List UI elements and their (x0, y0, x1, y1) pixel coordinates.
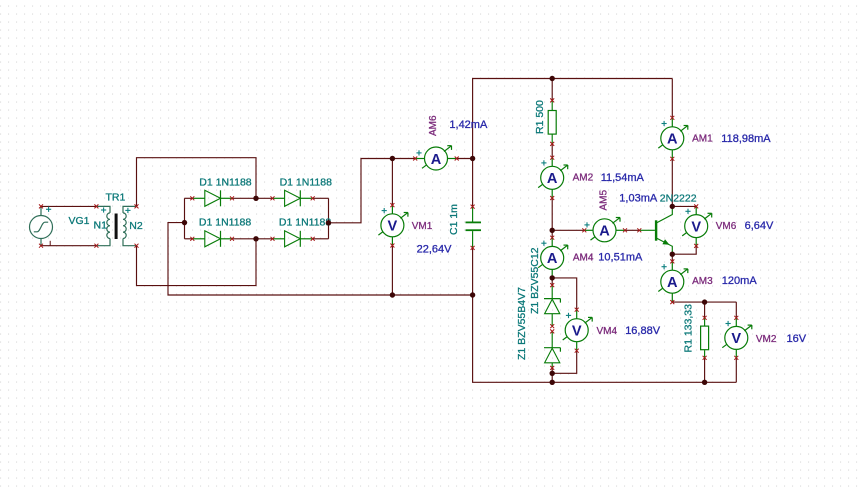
svg-text:D1 1N1188: D1 1N1188 (199, 176, 252, 188)
pin AM3 bottom (670, 300, 674, 304)
wire TR1 secondary bottom to bridge bottom mid (137, 239, 257, 286)
pin R1 500 top (550, 98, 554, 102)
AM6 plus mark (416, 150, 421, 155)
wire bridge top row left (185, 197, 193, 199)
pin TR1 primary bottom (94, 244, 98, 248)
svg-text:A: A (547, 251, 558, 267)
junction node emitter (670, 252, 675, 257)
wire R1 133 bottom to rail (704, 358, 706, 383)
junction node zener top (550, 275, 555, 280)
junction node top rail R1 (550, 76, 555, 81)
junction node zener bottom (550, 371, 555, 376)
pin TR1 secondary top (135, 204, 139, 208)
svg-text:VG1: VG1 (69, 215, 90, 227)
diode D1 bottom-right 1N1188 (272, 231, 312, 247)
svg-text:AM4: AM4 (573, 252, 594, 263)
pin VM6 bottom (694, 244, 698, 248)
TR1 primary plus mark (101, 207, 106, 212)
wire VM1 branch top (391, 159, 393, 206)
wire bridge right rail (328, 198, 330, 239)
VM2 plus mark (726, 321, 731, 326)
wire AM4 bottom node (551, 278, 553, 285)
svg-text:VM6: VM6 (716, 221, 737, 232)
svg-text:A: A (599, 224, 610, 240)
pin D1 top-right anode (271, 196, 275, 200)
AM4 plus mark (541, 241, 546, 246)
diode D1 bottom-left 1N1188 (192, 231, 232, 247)
junction node collector (670, 204, 675, 209)
pin Z1 C12 anode (550, 324, 554, 328)
svg-text:1,03mA: 1,03mA (619, 193, 658, 205)
wire VG1 top to TR1 primary (41, 205, 96, 207)
junction node load rail (702, 380, 707, 385)
wire AM2 to base node (551, 198, 553, 238)
pin C1 bottom (471, 246, 475, 250)
pin C1 top (471, 205, 475, 209)
wire AM1 to collector node (671, 159, 673, 207)
wire capacitor top (472, 159, 474, 207)
wire bridge left rail (184, 198, 186, 239)
wire VM2 top (735, 302, 737, 318)
transformer TR1 (96, 206, 136, 245)
VM1 plus mark (382, 208, 387, 213)
svg-text:Z1 BZV55C12: Z1 BZV55C12 (529, 247, 541, 314)
junction node base (550, 228, 555, 233)
svg-text:TR1: TR1 (106, 192, 126, 204)
svg-text:118,98mA: 118,98mA (721, 133, 771, 145)
resistor R1 133,33 (701, 318, 709, 358)
svg-text:A: A (431, 152, 442, 168)
ammeter AM2 (538, 157, 568, 198)
VM6 plus mark (685, 209, 690, 214)
svg-text:A: A (547, 171, 558, 187)
svg-text:N1: N1 (94, 219, 108, 231)
wire bridge bottom row right (313, 238, 329, 240)
svg-text:R1 133,33: R1 133,33 (683, 304, 695, 353)
wire emitter node to VM6 bottom (672, 246, 696, 254)
VG1 plus mark (46, 207, 51, 212)
junction node cap bottom rail (470, 292, 475, 297)
ammeter AM5 (584, 218, 625, 242)
pin D1 top-left cathode (230, 196, 234, 200)
svg-text:16V: 16V (787, 333, 807, 345)
wire bridge plus tap up to meters rail (329, 159, 416, 223)
VM4 plus mark (566, 313, 571, 318)
pin VM6 top (694, 204, 698, 208)
svg-text:A: A (667, 275, 678, 291)
pin AM1 bottom (670, 157, 674, 161)
svg-text:120mA: 120mA (722, 275, 758, 287)
wire VM4 branch top (552, 278, 577, 310)
svg-text:10,51mA: 10,51mA (598, 251, 643, 263)
wire AM3 bottom to load node line (672, 301, 736, 303)
wire bridge bottom row left (185, 238, 193, 240)
svg-text:VM2: VM2 (756, 334, 777, 345)
svg-text:V: V (731, 331, 741, 347)
svg-text:Z1 BZV55B4V7: Z1 BZV55B4V7 (516, 287, 528, 360)
svg-text:D1 1N1188: D1 1N1188 (280, 176, 333, 188)
pin D1 bottom-left anode (190, 237, 194, 241)
wire AM6 right to cap node (457, 158, 473, 160)
capacitor C1 1m (466, 207, 482, 248)
zener Z1 BZV55B4V7 (544, 331, 560, 368)
diode D1 top-right 1N1188 (272, 190, 312, 206)
wire zener chain bottom to rail (551, 368, 553, 382)
svg-text:AM5: AM5 (598, 190, 609, 211)
pin Z1 B4V7 anode (550, 366, 554, 370)
svg-text:N2: N2 (129, 220, 143, 232)
pin VM4 top (575, 308, 579, 312)
svg-text:R1 500: R1 500 (534, 100, 546, 134)
pin D1 bottom-left cathode (230, 237, 234, 241)
pin AM4 top (550, 236, 554, 240)
wire capacitor bottom (472, 248, 474, 295)
svg-text:AM2: AM2 (573, 173, 594, 184)
svg-text:VM4: VM4 (597, 326, 618, 337)
svg-text:22,64V: 22,64V (417, 244, 453, 256)
wire R1 500 to AM2 (551, 144, 553, 158)
wire AM1 top (671, 79, 673, 118)
svg-text:AM3: AM3 (692, 276, 713, 287)
pin AM5 right (623, 228, 627, 232)
pin TR1 primary top (94, 204, 98, 208)
junction node bridge left tap (182, 220, 187, 225)
voltmeter VM2 (722, 318, 752, 359)
svg-text:11,54mA: 11,54mA (601, 172, 645, 184)
pin AM1 top (670, 116, 674, 120)
ammeter AM4 (538, 238, 568, 279)
junction node VM1 bottom rail (390, 292, 395, 297)
svg-text:A: A (667, 132, 678, 148)
wire bridge top row middle (232, 197, 273, 199)
wire lower ground rail (473, 295, 737, 382)
pin VM1 top (390, 203, 394, 207)
wire load node to R1 133 top (704, 302, 706, 318)
pin AM3 top (670, 259, 674, 263)
svg-text:D1 1N1188: D1 1N1188 (279, 216, 332, 228)
ammeter AM1 (658, 118, 688, 159)
pin AM5 left (582, 228, 586, 232)
wire VM1 branch bottom (391, 246, 393, 296)
zener Z1 BZV55C12 (544, 285, 560, 326)
svg-text:AM1: AM1 (692, 134, 713, 145)
junction node VM1 top (390, 156, 395, 161)
svg-text:D1 1N1188: D1 1N1188 (199, 216, 252, 228)
wire collector node to VM6 top (672, 205, 696, 207)
pin VG1 plus (39, 204, 43, 208)
pin VM4 bottom (575, 349, 579, 353)
svg-text:16,88V: 16,88V (625, 325, 661, 337)
pin VM2 bottom (734, 356, 738, 360)
pin Z1 C12 cathode (550, 283, 554, 287)
wire base node to AM5 (552, 229, 584, 231)
svg-text:6,64V: 6,64V (745, 220, 774, 232)
junction node bridge bottom mid (253, 236, 258, 241)
pin Z1 B4V7 cathode (550, 329, 554, 333)
svg-text:2N2222: 2N2222 (660, 192, 697, 204)
AM1 plus mark (662, 121, 667, 126)
pin R1 133 top (703, 316, 707, 320)
AM3 plus mark (662, 264, 667, 269)
resistor R1 500 (548, 100, 556, 143)
pin AM6 right (455, 157, 459, 161)
voltage generator VG1 (30, 206, 53, 245)
svg-text:V: V (572, 324, 582, 340)
wire bridge top row right (313, 197, 329, 199)
wire bridge minus tap to bottom rail (168, 223, 473, 295)
wire VM2 bottom to rail (735, 358, 737, 383)
pin D1 bottom-right anode (271, 237, 275, 241)
pin TR1 secondary bottom (135, 244, 139, 248)
svg-text:V: V (388, 219, 398, 235)
pin R1 133 bottom (703, 356, 707, 360)
wire VM4 branch bottom (552, 351, 577, 374)
svg-text:V: V (691, 219, 701, 235)
pin D1 bottom-right cathode (311, 237, 315, 241)
wire cap node up and top rail (473, 79, 673, 159)
TR1 secondary plus mark (125, 208, 130, 213)
pin R1 500 bottom (550, 142, 554, 146)
voltmeter VM1 (378, 205, 408, 246)
svg-text:AM6: AM6 (428, 115, 439, 136)
svg-text:VM1: VM1 (412, 221, 433, 232)
voltmeter VM6 (682, 206, 712, 247)
junction node zener rail (550, 380, 555, 385)
wire AM5 to Q1 base (625, 229, 639, 231)
wire VG1 bottom to TR1 primary (41, 245, 96, 247)
pin Q1 base (637, 228, 641, 232)
pin D1 top-left anode (190, 196, 194, 200)
pin AM6 left (413, 157, 417, 161)
pin D1 top-right cathode (311, 196, 315, 200)
wire TR1 secondary top to bridge top mid (137, 158, 257, 207)
junction node cap top (470, 156, 475, 161)
diode D1 top-left 1N1188 (192, 190, 232, 206)
wire R1 500 top (551, 79, 553, 101)
pin VG1 minus (39, 244, 43, 248)
pin VM1 bottom (390, 244, 394, 248)
wire emitter node to AM3 (671, 254, 673, 261)
AM5 plus mark (584, 222, 589, 227)
svg-text:C1 1m: C1 1m (448, 204, 460, 235)
wire bridge bottom row middle (232, 238, 273, 240)
junction node bridge right tap (326, 220, 331, 225)
junction node bridge top mid (253, 196, 258, 201)
junction node load top (702, 299, 707, 304)
svg-text:1,42mA: 1,42mA (449, 119, 488, 131)
ammeter AM6 (416, 146, 457, 170)
AM2 plus mark (541, 160, 546, 165)
pin AM2 bottom (550, 196, 554, 200)
voltmeter VM4 (563, 310, 593, 351)
pin AM2 top (550, 156, 554, 160)
ammeter AM3 (658, 261, 688, 302)
transistor Q1 2N2222 (639, 206, 672, 254)
pin VM2 top (734, 316, 738, 320)
